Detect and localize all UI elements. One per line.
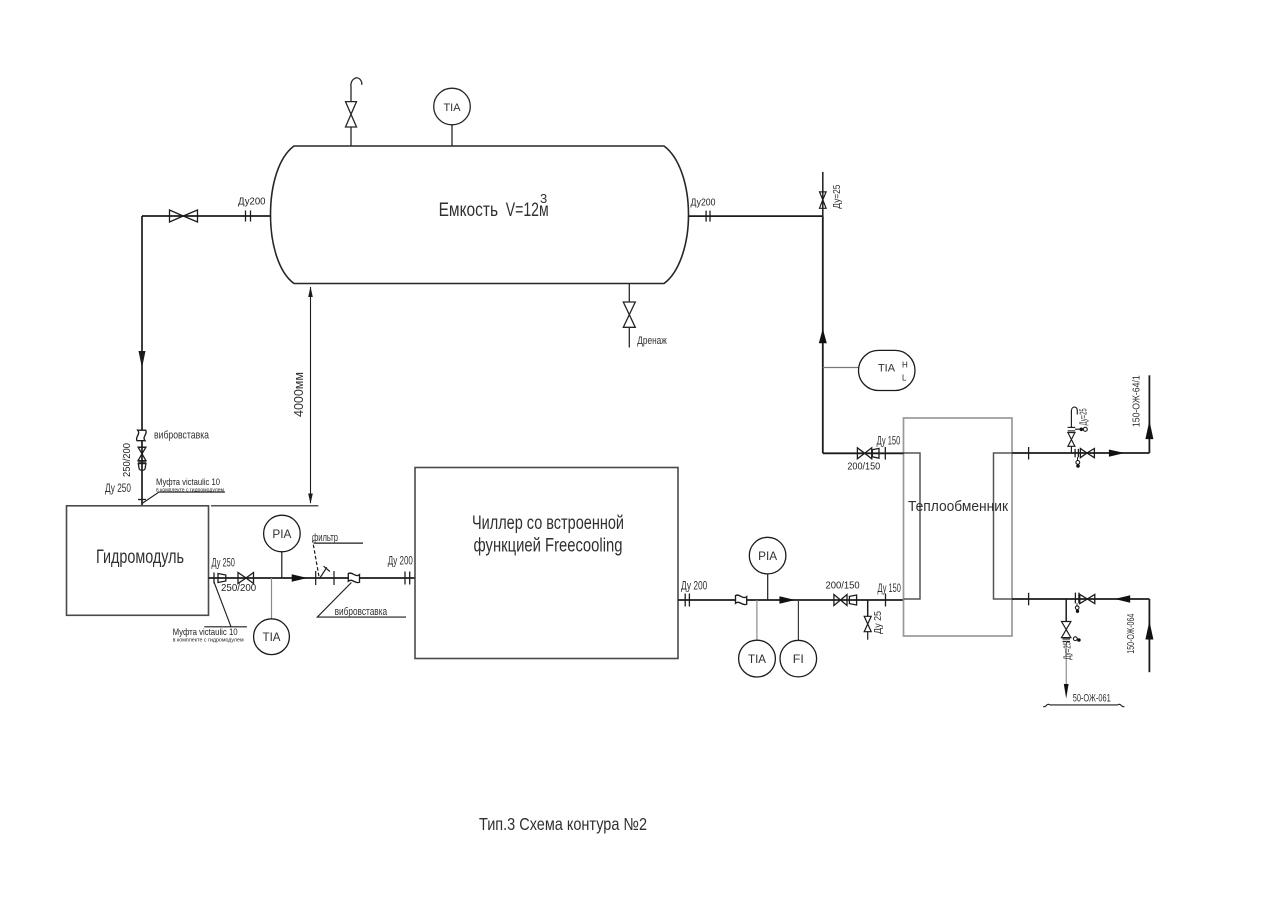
svg-text:Муфта victaulic 10: Муфта victaulic 10 [173, 627, 238, 638]
svg-text:Ду=25: Ду=25 [1062, 642, 1074, 660]
svg-text:Ду 250: Ду 250 [105, 483, 131, 495]
svg-text:в комплекте с гидромодулем: в комплекте с гидромодулем [173, 638, 244, 644]
svg-text:вибровставка: вибровставка [335, 606, 388, 618]
svg-text:Ду=25: Ду=25 [1079, 408, 1090, 425]
svg-text:150-ОЖ-064: 150-ОЖ-064 [1125, 614, 1137, 654]
svg-text:Дренаж: Дренаж [637, 335, 667, 347]
svg-text:L: L [902, 374, 907, 383]
svg-text:FI: FI [793, 652, 804, 666]
svg-text:TIA: TIA [444, 102, 462, 114]
svg-text:4000мм: 4000мм [292, 372, 306, 417]
svg-text:Ду200: Ду200 [691, 197, 716, 209]
svg-text:PIA: PIA [758, 549, 777, 563]
svg-text:Ду=25: Ду=25 [831, 184, 843, 208]
svg-text:Теплообменник: Теплообменник [908, 498, 1008, 515]
svg-text:Ду 200: Ду 200 [388, 556, 413, 568]
svg-text:200/150: 200/150 [826, 580, 860, 592]
svg-text:250/200: 250/200 [221, 582, 256, 594]
svg-text:TIA: TIA [748, 652, 766, 666]
svg-text:200/150: 200/150 [847, 461, 880, 473]
svg-text:Чиллер со встроенной: Чиллер со встроенной [472, 513, 624, 534]
svg-text:Ду 150: Ду 150 [877, 436, 901, 448]
svg-text:Гидромодуль: Гидромодуль [96, 547, 184, 568]
svg-text:50-ОЖ-061: 50-ОЖ-061 [1073, 693, 1111, 705]
svg-text:Ду 25: Ду 25 [872, 611, 884, 634]
svg-text:Ду 250: Ду 250 [212, 558, 235, 570]
svg-text:Тип.3 Схема контура №2: Тип.3 Схема контура №2 [479, 814, 647, 834]
svg-text:3: 3 [540, 191, 547, 206]
svg-text:PIA: PIA [272, 527, 291, 541]
svg-text:фильтр: фильтр [312, 532, 338, 544]
svg-text:TIA: TIA [263, 630, 281, 644]
svg-text:Ду 150: Ду 150 [878, 583, 901, 595]
svg-text:TIA: TIA [878, 363, 896, 375]
svg-text:Емкость: Емкость [439, 200, 499, 221]
svg-text:функцией Freecooling: функцией Freecooling [474, 536, 623, 557]
svg-text:Ду200: Ду200 [238, 196, 266, 208]
svg-text:Ду 200: Ду 200 [681, 581, 707, 593]
svg-text:Муфта victaulic 10: Муфта victaulic 10 [156, 477, 220, 488]
svg-text:250/200: 250/200 [122, 443, 133, 477]
svg-text:H: H [902, 361, 908, 370]
svg-text:150-ОЖ-64/1: 150-ОЖ-64/1 [1131, 375, 1143, 427]
svg-text:в комплекте с гидромодулем: в комплекте с гидромодулем [156, 488, 224, 494]
svg-text:вибровставка: вибровставка [154, 430, 210, 442]
